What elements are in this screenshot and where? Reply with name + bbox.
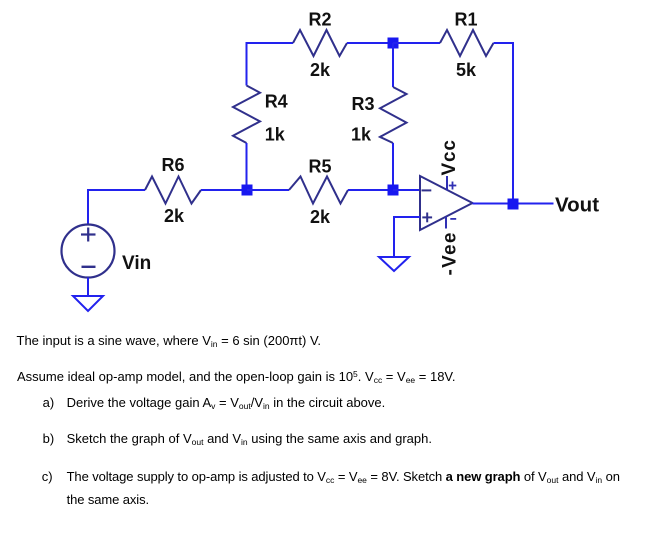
label -Vee (440, 231, 461, 275)
wire R6 to node A (201, 189, 247, 191)
svg-text:R4: R4 (265, 92, 288, 112)
svg-text:R2: R2 (308, 10, 331, 30)
label 1k (R4 value) (265, 124, 286, 144)
label R2 (308, 10, 331, 30)
resistor R6 (145, 177, 201, 204)
svg-text:Vout: Vout (555, 194, 599, 217)
resistor R1 (440, 30, 494, 56)
output wire (473, 203, 554, 205)
label 5k (R1 value) (456, 60, 477, 80)
svg-text:2k: 2k (164, 206, 185, 226)
wire node C to R1 (393, 42, 440, 44)
op-amp U1 (420, 176, 473, 230)
wire R3 bottom to node B (392, 143, 394, 190)
svg-text:-Vee: -Vee (440, 231, 461, 275)
label R5 (308, 157, 331, 177)
wire R1 right down to output node (494, 43, 514, 204)
resistor R4 (233, 86, 260, 144)
resistor R2 (293, 30, 347, 56)
wire R3 top from node C (392, 43, 394, 87)
resistor R5 (289, 177, 348, 204)
svg-text:R3: R3 (351, 94, 374, 114)
svg-text:1k: 1k (351, 125, 372, 145)
label R6 (161, 155, 184, 175)
svg-text:R6: R6 (161, 155, 184, 175)
voltage source Vin (62, 225, 115, 278)
svg-text:Vcc: Vcc (439, 139, 460, 175)
svg-text:2k: 2k (310, 60, 331, 80)
wire top-left from R4 top corner to R2 (247, 43, 294, 86)
label Vout (555, 194, 599, 217)
wire Vin to ground (87, 278, 89, 297)
node B junction (388, 185, 399, 196)
resistor R3 (380, 87, 407, 143)
Vee supply stub (446, 217, 456, 229)
svg-text:5k: 5k (456, 60, 477, 80)
svg-text:R1: R1 (454, 10, 477, 30)
node A junction (242, 185, 253, 196)
label R1 (454, 10, 477, 30)
svg-text:Vin: Vin (122, 253, 151, 274)
label Vcc (439, 139, 460, 175)
label R4 (265, 92, 288, 112)
Vcc supply stub (447, 176, 456, 191)
label 1k (R3 value) (351, 125, 372, 145)
svg-text:1k: 1k (265, 124, 286, 144)
ground (op-amp +) (379, 257, 409, 271)
wire non-inverting input to ground (394, 217, 420, 257)
label 2k (R6 value) (164, 206, 185, 226)
wire Vin to R6 (88, 190, 145, 224)
node D output junction (508, 199, 519, 210)
wire node B to op-amp inverting input (393, 189, 420, 191)
svg-text:2k: 2k (310, 207, 331, 227)
wire node A to R5 (247, 189, 289, 191)
ground (Vin) (73, 296, 103, 311)
wire R2 to node C (347, 42, 393, 44)
label 2k (R5 value) (310, 207, 331, 227)
label 2k (R2 value) (310, 60, 331, 80)
wire R5 to node B (348, 189, 393, 191)
label R3 (351, 94, 374, 114)
wire R4 bottom to node A (246, 143, 248, 190)
node C junction (388, 38, 399, 49)
label Vin (122, 253, 151, 274)
svg-text:R5: R5 (308, 157, 331, 177)
